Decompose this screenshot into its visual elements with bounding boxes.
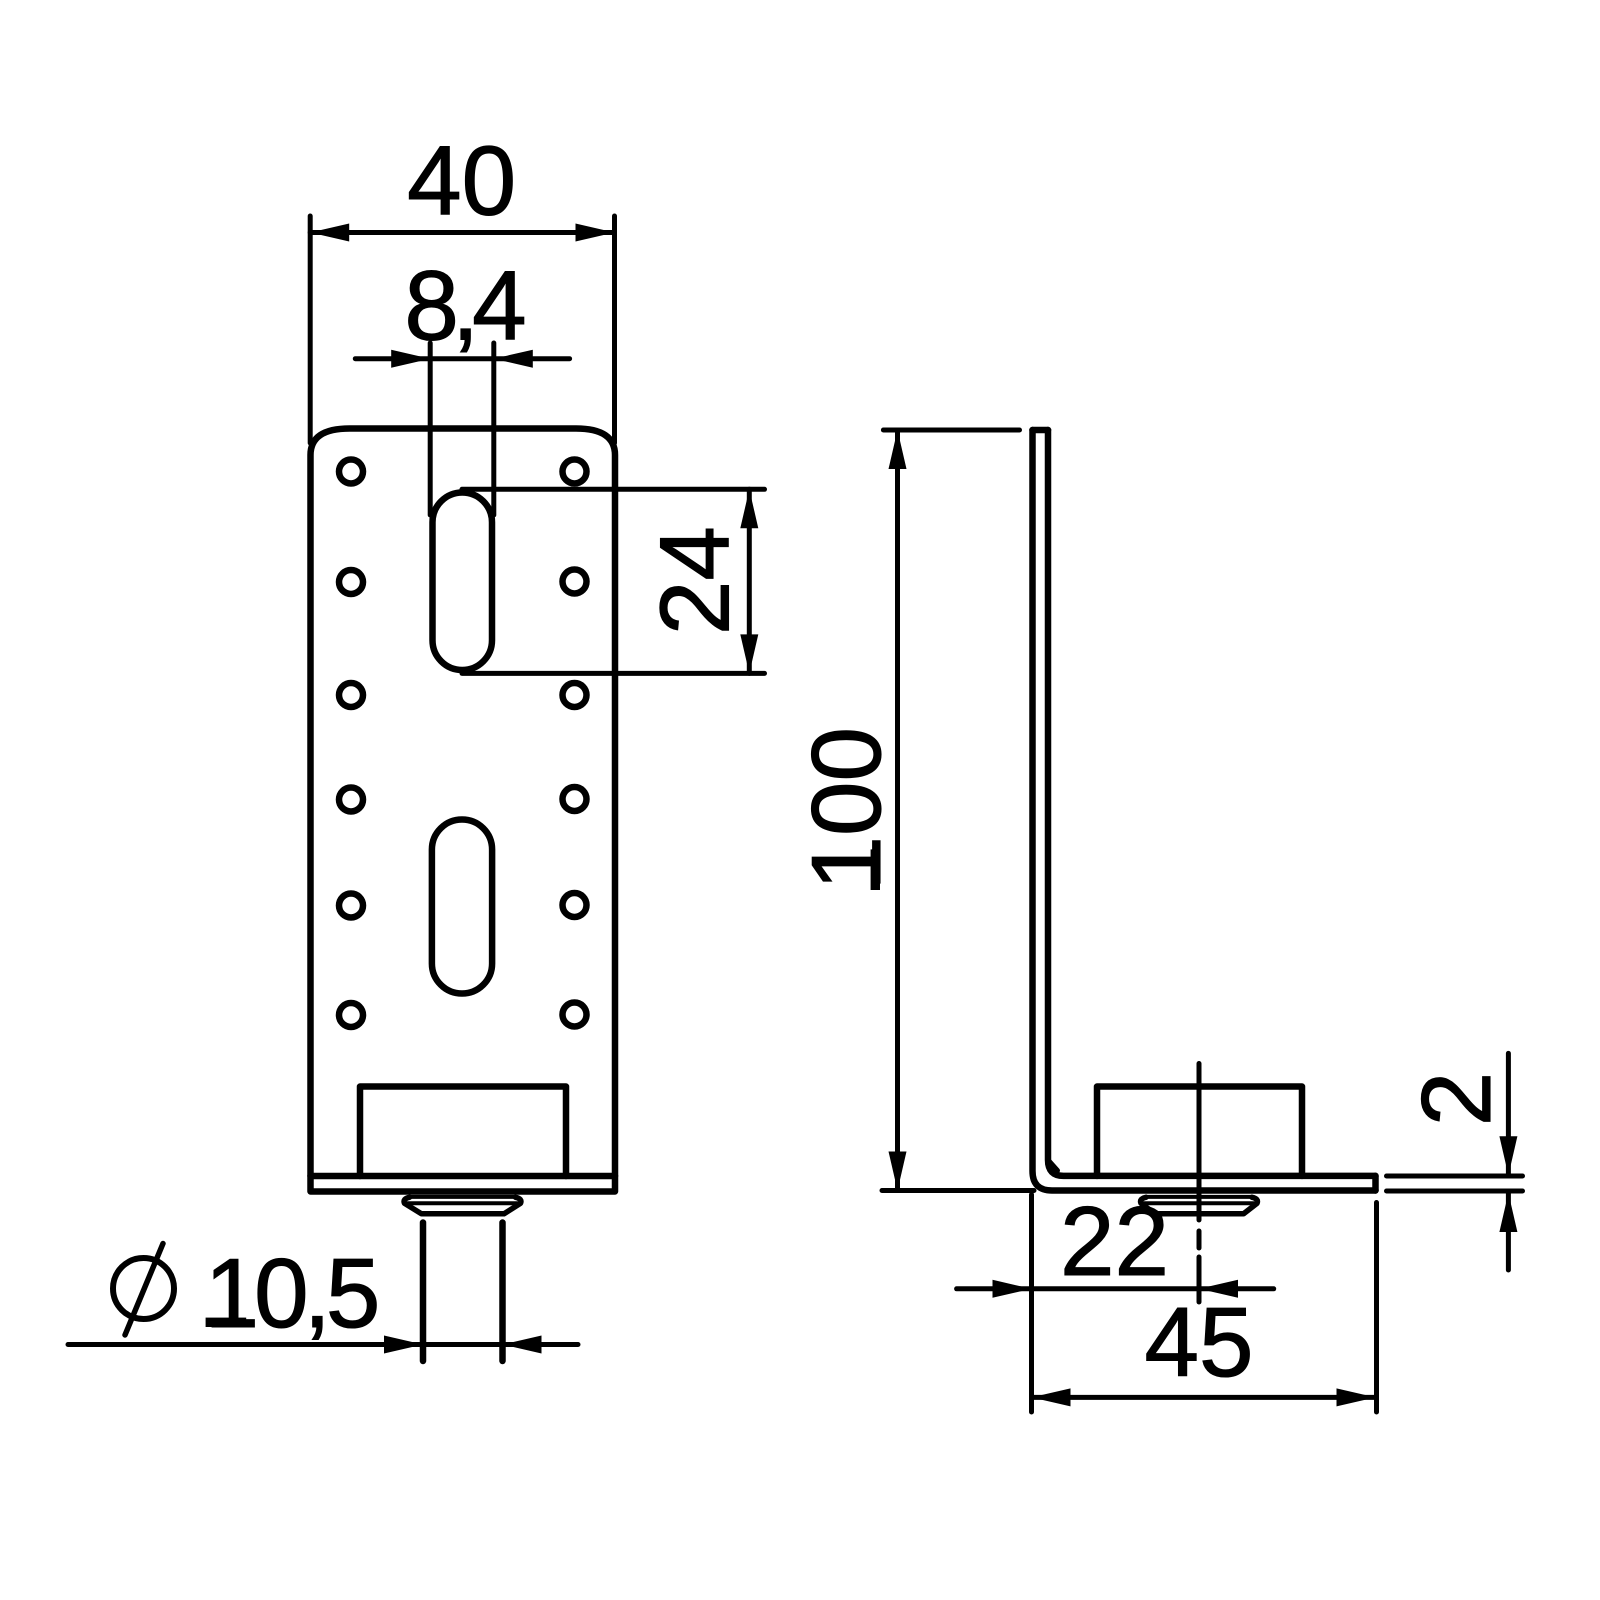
bolt shaft front right line <box>499 1223 506 1362</box>
dim 24 extension line bottom <box>462 671 765 676</box>
dim dia 10,5 line <box>68 1342 578 1347</box>
bolt head side: flange outline <box>1141 1197 1258 1214</box>
side view nut block <box>1097 1087 1302 1176</box>
hole row1 right <box>563 460 587 484</box>
dim 40 line <box>310 230 614 235</box>
svg-text:40: 40 <box>407 126 516 236</box>
dim 40 extension line left <box>308 216 313 443</box>
dim 2 arrow down <box>1499 1136 1517 1175</box>
dim 8,4 line <box>355 356 569 361</box>
dim 40 arrow left <box>310 224 349 242</box>
bend line (front view base edge-on) <box>311 1173 616 1180</box>
dim 100 line <box>895 430 900 1191</box>
front view plate outline <box>311 429 616 1192</box>
dim 22 arrow left (points right at face) <box>993 1280 1032 1298</box>
dim 8,4 arrow right (outside, points left) <box>494 350 533 368</box>
dim 100 extension line top <box>883 428 1019 433</box>
label 10,5 foot serif of digit 1 <box>206 1318 247 1327</box>
hole row6 left <box>339 1003 363 1027</box>
hole row3 left <box>339 683 363 707</box>
hole row3 right <box>563 683 587 707</box>
bolt head front: flange mid line <box>405 1201 521 1205</box>
dim 100 arrow down <box>889 1152 907 1191</box>
dim 8,4 extension line right <box>491 343 496 515</box>
dim dia arrow at left shaft line (points right) <box>384 1336 423 1354</box>
dim 2 arrow up <box>1499 1193 1517 1232</box>
dim 8,4 extension line left <box>428 343 433 515</box>
bolt shaft front left line <box>420 1223 427 1362</box>
dim 40 extension line right <box>612 216 617 443</box>
diameter symbol slash <box>125 1244 163 1336</box>
side view leg inner face + base top line <box>1048 430 1376 1176</box>
dim 2 line upper segment <box>1506 1053 1511 1175</box>
dim 8,4 arrow left (outside, points right) <box>391 350 430 368</box>
hole row4 right <box>563 787 587 811</box>
svg-text:22: 22 <box>1060 1186 1169 1296</box>
diameter symbol circle <box>113 1258 174 1319</box>
bolt head front: washer top line <box>410 1195 516 1199</box>
dim 40 arrow right <box>576 224 615 242</box>
dim 45 extension line right <box>1374 1203 1379 1413</box>
svg-text:8,4: 8,4 <box>404 251 524 361</box>
dim 100 arrow up <box>889 430 907 469</box>
hole row4 left <box>339 788 363 812</box>
dim 22 arrow right (points left at centerline) <box>1199 1280 1238 1298</box>
side view leg outer face + bottom base line <box>1033 430 1376 1191</box>
dim 22/45 extension line left (leg outer face) <box>1029 1195 1034 1413</box>
dim 2 extension line top <box>1387 1174 1523 1179</box>
hole row5 left <box>339 894 363 918</box>
svg-text:45: 45 <box>1144 1287 1253 1397</box>
hole row1 left <box>339 460 363 484</box>
nut block front <box>360 1087 566 1177</box>
side view base right edge <box>1372 1176 1379 1191</box>
lower slot <box>432 820 492 994</box>
bolt centerline segment 1 <box>1197 1064 1202 1221</box>
hole row2 left <box>339 570 363 594</box>
upper slot 8.4x24 <box>433 493 493 671</box>
dim 2 line lower segment <box>1506 1193 1511 1270</box>
dim 24 extension line top <box>462 487 765 492</box>
hole row2 right <box>563 570 587 594</box>
dim 24 arrow up <box>740 489 758 528</box>
hole row6 right <box>563 1003 587 1027</box>
bolt head side: flange mid line <box>1141 1201 1257 1205</box>
dim 24 line <box>747 489 752 673</box>
svg-text:24: 24 <box>640 526 750 635</box>
dim 2 extension line bottom <box>1387 1189 1523 1194</box>
dim 24 arrow down <box>740 634 758 673</box>
bolt head side: washer top line <box>1146 1195 1252 1199</box>
svg-text:2: 2 <box>1401 1072 1511 1127</box>
bolt centerline segment 3 <box>1197 1257 1202 1302</box>
hole row5 right <box>563 893 587 917</box>
svg-text:10,5: 10,5 <box>205 1238 377 1348</box>
bolt head front: flange outline <box>404 1197 521 1214</box>
bolt centerline dash <box>1197 1231 1202 1248</box>
label 100 foot serif of digit 1 <box>871 849 880 890</box>
dim 45 arrow left <box>1032 1388 1071 1406</box>
side view leg top cap <box>1033 427 1049 434</box>
dim 45 arrow right <box>1337 1388 1376 1406</box>
side view base bottom extension to the left <box>882 1188 1034 1193</box>
bend transition tick <box>1050 1162 1058 1171</box>
svg-text:100: 100 <box>791 727 901 891</box>
dim 45 line <box>1032 1395 1376 1400</box>
dim 22 line <box>957 1286 1274 1291</box>
dim dia arrow at right shaft line (points left) <box>503 1336 542 1354</box>
